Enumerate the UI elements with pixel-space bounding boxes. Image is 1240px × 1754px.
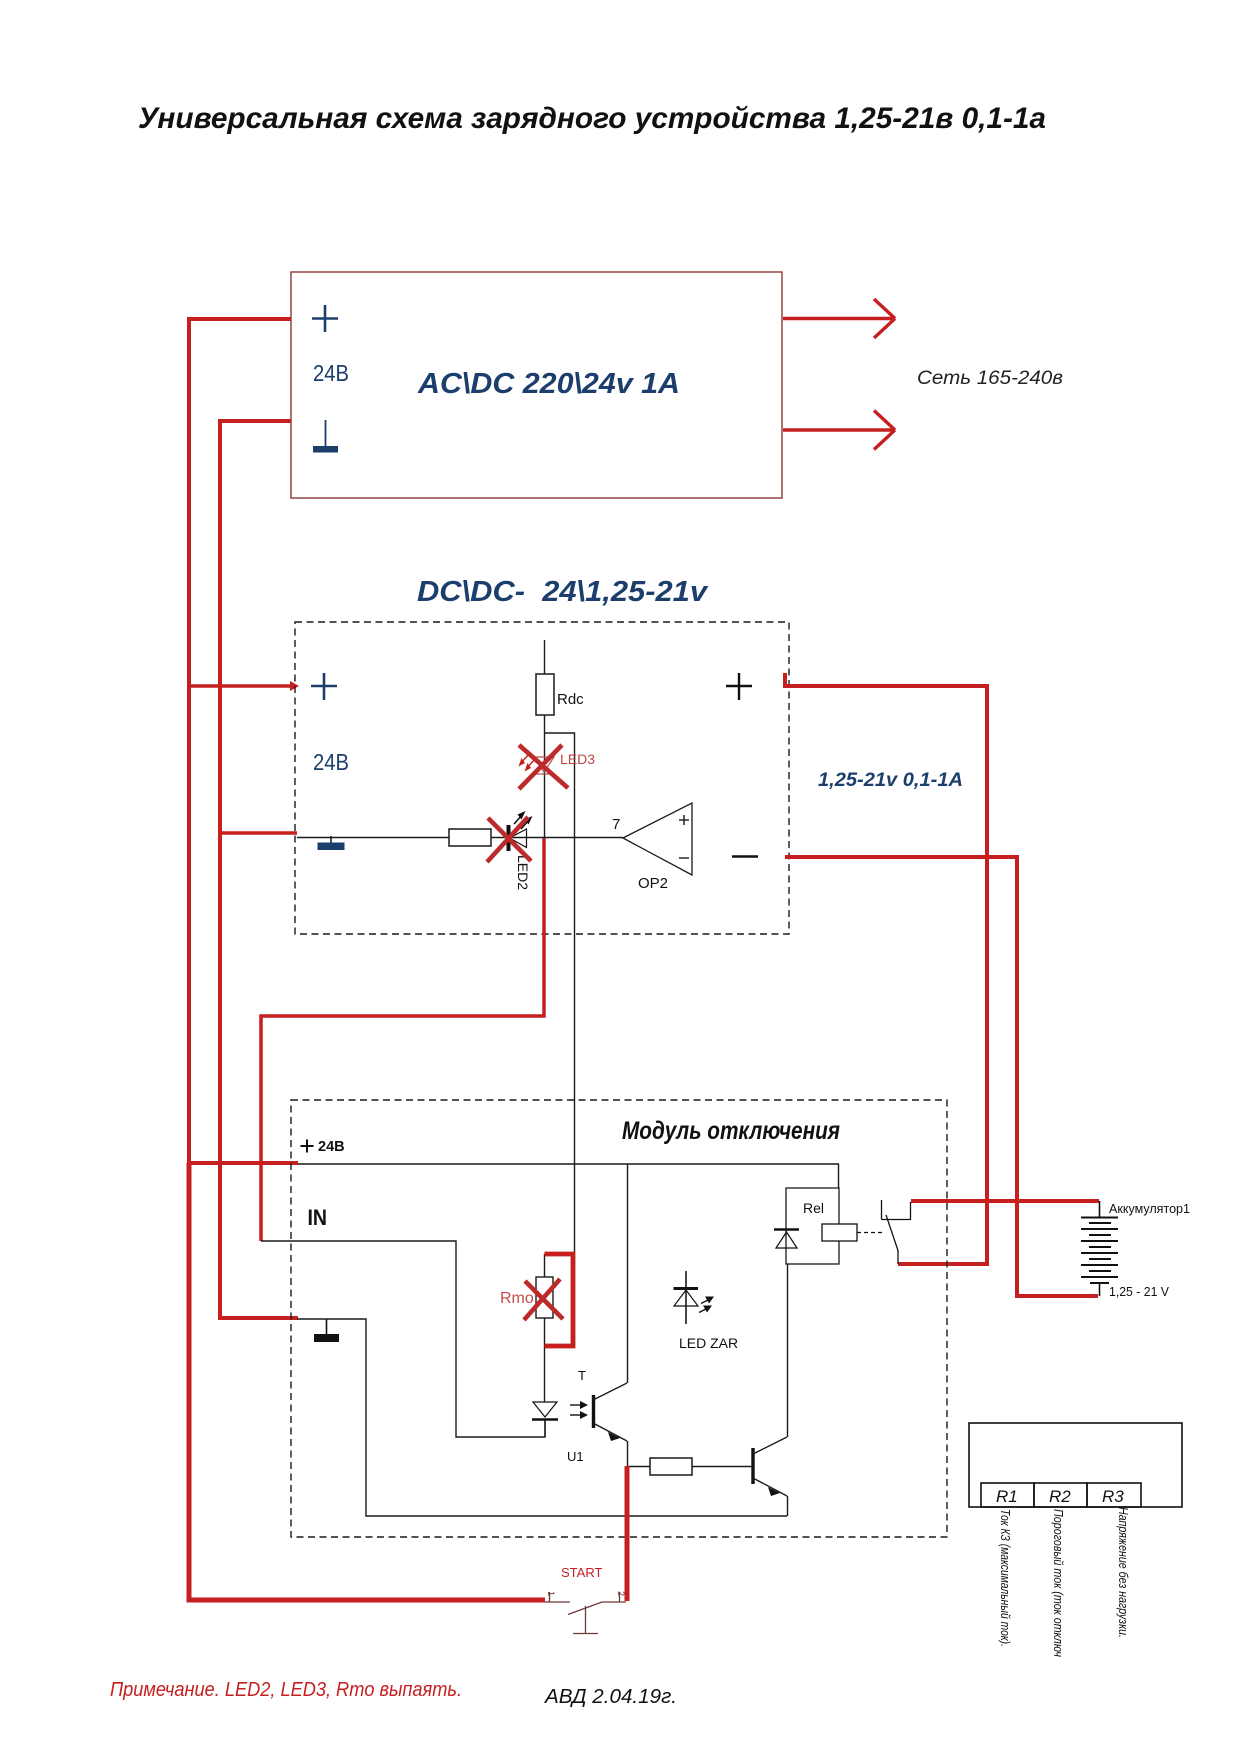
start switch (545, 1592, 626, 1634)
svg-text:Универсальная схема зарядного: Универсальная схема зарядного устройства… (138, 102, 1046, 135)
svg-text:R2: R2 (1049, 1487, 1071, 1506)
svg-text:Сеть 165-240в: Сеть 165-240в (917, 368, 1063, 389)
svg-text:LED ZAR: LED ZAR (679, 1335, 738, 1351)
svg-text:Rmo: Rmo (500, 1290, 534, 1307)
wire DC plus output (785, 673, 987, 1264)
wire DCDC input node to opamp (297, 837, 623, 839)
svg-text:Пороговый ток (ток отключ: Пороговый ток (ток отключ (1051, 1509, 1066, 1657)
wire rail to relay box (838, 1164, 840, 1188)
plus 24V module terminal (301, 1140, 314, 1153)
svg-text:2: 2 (616, 1591, 626, 1596)
red bypass jumper around Rmo (545, 1254, 574, 1346)
wire resistor to transistor (692, 1466, 752, 1468)
svg-text:24В: 24В (318, 1139, 345, 1155)
wire base resistor (627, 1466, 650, 1468)
minus output terminal (732, 855, 758, 858)
svg-text:Ток КЗ (максимальный ток).: Ток КЗ (максимальный ток). (998, 1509, 1013, 1647)
optocoupler U1 input LED (532, 1402, 558, 1437)
plus output terminal (726, 673, 752, 700)
transistor Q1 (753, 1264, 788, 1516)
LED3 crossed out (534, 757, 554, 774)
ground symbol DCDC (318, 836, 345, 850)
svg-text:OP2: OP2 (638, 875, 668, 892)
red X over LED3 (519, 745, 568, 789)
LED ZAR (674, 1271, 715, 1324)
wire gnd rail from ACDC down (220, 421, 298, 1318)
svg-text:Rel: Rel (803, 1200, 824, 1216)
svg-text:LED3: LED3 (560, 751, 595, 767)
ground symbol ACDC (313, 420, 338, 453)
wire gnd to bottom rail (297, 1319, 787, 1516)
svg-text:АВД 2.04.19г.: АВД 2.04.19г. (544, 1686, 677, 1708)
light arrows U1 (570, 1401, 588, 1419)
base resistor (650, 1458, 692, 1475)
red X over Rmo (524, 1279, 563, 1320)
wire +24V rail from ACDC plus down to module (189, 319, 298, 1163)
relay switch contact (882, 1200, 911, 1264)
resistor Rmo crossed out (536, 1254, 553, 1402)
AC/DC converter box (291, 272, 782, 498)
LED2 crossed out (509, 811, 533, 851)
wire loop from Rdc to module (544, 733, 575, 1253)
wire start button vertical (625, 1466, 630, 1601)
wire IN to optocoupler diode (261, 1241, 545, 1437)
plus terminal ACDC (312, 305, 338, 332)
svg-text:1: 1 (546, 1591, 556, 1596)
relay Rel box (786, 1188, 839, 1264)
ground symbol module (314, 1319, 339, 1342)
DC/DC dashed box (295, 622, 789, 934)
wire mains arrow 2 (783, 411, 895, 450)
svg-text:IN: IN (308, 1205, 328, 1230)
resistor before LED2 (449, 829, 491, 846)
opamp minus input (679, 857, 689, 859)
svg-text:1,25-21v 0,1-1A: 1,25-21v 0,1-1A (818, 770, 963, 791)
op-amp OP2 (623, 803, 692, 875)
opamp plus input (679, 815, 689, 825)
wire DC out down to IN (261, 838, 544, 1241)
arrowhead DCDC plus input (290, 681, 299, 691)
wire module top rail (298, 1163, 839, 1165)
svg-text:R3: R3 (1102, 1487, 1124, 1506)
svg-text:DC\DC- 24\1,25-21v: DC\DC- 24\1,25-21v (417, 576, 709, 608)
svg-text:Модуль отключения: Модуль отключения (622, 1117, 840, 1145)
svg-text:START: START (561, 1565, 602, 1580)
svg-text:24В: 24В (313, 749, 349, 775)
svg-text:Напряжение без нагрузки.: Напряжение без нагрузки. (1116, 1507, 1131, 1638)
wire mains arrow 1 (783, 299, 895, 338)
battery Аккумулятор1 (1081, 1201, 1118, 1296)
wire start rail bottom left (189, 1163, 545, 1600)
wire DC minus output (785, 857, 1098, 1296)
svg-text:24В: 24В (313, 360, 349, 386)
svg-text:R1: R1 (996, 1487, 1018, 1506)
wire branch to DCDC plus input (189, 684, 294, 688)
relay coil (822, 1224, 857, 1241)
svg-text:1,25 - 21 V: 1,25 - 21 V (1109, 1284, 1169, 1299)
svg-text:Rdc: Rdc (557, 691, 584, 708)
Module dashed box (291, 1100, 947, 1537)
svg-text:U1: U1 (567, 1449, 584, 1464)
red X over LED2 (487, 817, 531, 862)
plus terminal DCDC (311, 673, 337, 700)
resistor Rdc (536, 640, 554, 838)
svg-text:Примечание. LED2, LED3, Rmo вы: Примечание. LED2, LED3, Rmo выпаять. (110, 1679, 462, 1701)
dashed actuation link (857, 1232, 884, 1234)
svg-text:AC\DC 220\24v 1A: AC\DC 220\24v 1A (417, 368, 680, 400)
settings box R1 R2 R3 (969, 1423, 1182, 1507)
svg-text:7: 7 (612, 816, 620, 833)
svg-text:T: T (578, 1368, 586, 1383)
wire battery plus (911, 1199, 1099, 1203)
optocoupler phototransistor (593, 1164, 628, 1466)
svg-text:Аккумулятор1: Аккумулятор1 (1109, 1201, 1190, 1216)
wire branch to DCDC gnd input (220, 831, 297, 835)
flyback diode (774, 1230, 799, 1249)
